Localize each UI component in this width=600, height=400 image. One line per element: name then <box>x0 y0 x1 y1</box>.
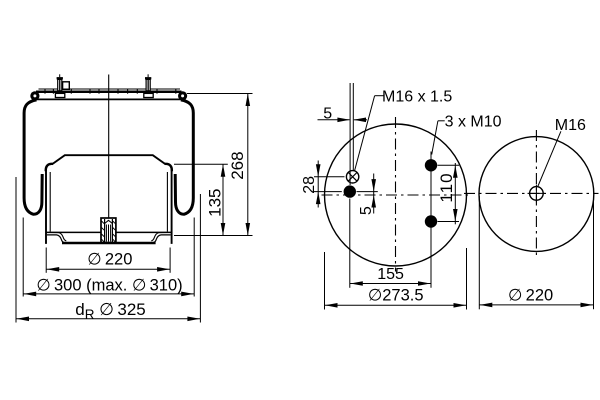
tab bracket next to left bolt <box>63 82 70 90</box>
right stud bolt <box>144 74 153 97</box>
dimension dia 300 max 310 <box>23 218 194 297</box>
dimension 5 right of hole <box>357 174 378 214</box>
svg-text:28: 28 <box>301 176 318 194</box>
svg-text:5: 5 <box>323 105 332 122</box>
dimension 135 <box>174 164 228 235</box>
svg-text:dR ∅ 325: dR ∅ 325 <box>75 300 146 322</box>
svg-text:268: 268 <box>228 151 247 179</box>
piston outline <box>46 155 172 244</box>
dimension dia 220 right <box>479 196 593 309</box>
dimension 268 <box>174 94 253 236</box>
dimension 28 <box>314 161 345 208</box>
piston bottom right step inner <box>151 232 168 240</box>
main circle <box>325 124 467 266</box>
dimension dia 273.5 <box>325 248 467 310</box>
dimension dR dia 325 <box>16 177 200 323</box>
right circle <box>479 137 594 252</box>
svg-text:M16 x 1.5: M16 x 1.5 <box>382 88 452 105</box>
central bushing <box>101 218 116 243</box>
centerline left view <box>108 75 110 219</box>
label 3 x M10 with leader <box>432 121 445 155</box>
piston bottom band <box>62 242 156 245</box>
svg-text:135: 135 <box>205 189 224 217</box>
dimension 5 top <box>318 119 368 121</box>
piston shoulder left <box>46 164 53 171</box>
svg-text:∅273.5: ∅273.5 <box>368 287 424 305</box>
dimension 155 <box>350 152 431 288</box>
piston bottom right step <box>154 235 171 242</box>
svg-text:M16: M16 <box>555 117 586 134</box>
plate left bead roll <box>30 91 39 100</box>
svg-text:∅ 220: ∅ 220 <box>87 251 132 269</box>
dimension 110 <box>438 163 460 224</box>
extension verticals through fitting <box>349 83 351 185</box>
piston shoulder right <box>165 164 172 171</box>
top plate <box>36 89 182 92</box>
horizontal centerline dashed right <box>464 192 599 194</box>
dimension dia 220 bottom left <box>46 248 170 273</box>
piston inner wall lines <box>49 172 51 232</box>
svg-text:∅ 300 (max. ∅ 310): ∅ 300 (max. ∅ 310) <box>36 276 182 294</box>
M16x1.5 air fitting crossed circle <box>346 171 358 183</box>
bellows right contour with rolling lobe <box>175 100 193 214</box>
plate right bead roll <box>178 91 187 100</box>
svg-text:3 x M10: 3 x M10 <box>445 114 502 131</box>
piston bottom left step inner <box>49 232 66 240</box>
svg-text:110: 110 <box>437 172 456 202</box>
M10 hole left <box>344 185 356 197</box>
M10 hole top right <box>425 159 437 171</box>
M10 hole bottom right <box>425 215 437 227</box>
piston bottom left step <box>47 235 64 242</box>
svg-text:5: 5 <box>358 206 375 215</box>
label M16 x 1.5 with leader <box>355 96 384 171</box>
svg-text:∅ 220: ∅ 220 <box>508 287 553 305</box>
label M16 with leader <box>538 131 561 186</box>
vertical centerline dashed right <box>535 130 537 258</box>
bushing hatching <box>102 221 116 242</box>
vertical centerline dashed <box>395 117 397 272</box>
svg-text:155: 155 <box>377 266 404 283</box>
bellows left contour with rolling lobe <box>24 100 42 214</box>
M16 center hole <box>528 185 546 203</box>
bellows top rim line <box>34 98 184 100</box>
piston bottom flange top line <box>46 231 101 233</box>
left stud bolt <box>55 74 64 97</box>
horizontal centerline dashed <box>322 194 472 196</box>
plate rivets/ticks <box>45 89 176 94</box>
